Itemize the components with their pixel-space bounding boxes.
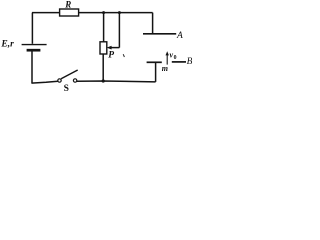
svg-text:B: B bbox=[187, 57, 192, 67]
wire right vertical to plate B bbox=[155, 62, 157, 82]
svg-text:m: m bbox=[162, 64, 168, 73]
junction node at top of slider branch bbox=[118, 11, 121, 14]
wire slider branch vertical bbox=[118, 13, 120, 48]
plate B right segment bbox=[172, 61, 186, 63]
potentiometer P box bbox=[100, 42, 107, 54]
wire potentiometer branch upper bbox=[103, 13, 105, 42]
wire top-right vertical to plate A bbox=[152, 13, 154, 34]
wire slider branch horizontal bbox=[111, 47, 120, 49]
wire bottom-right horizontal bbox=[77, 80, 156, 83]
plate A bbox=[143, 33, 176, 35]
wire left vertical lower bbox=[31, 51, 33, 83]
wire left vertical upper (battery branch) bbox=[31, 13, 33, 44]
stray scan tick near P bbox=[123, 54, 124, 57]
potentiometer slider arrowhead bbox=[107, 46, 112, 50]
svg-text:P: P bbox=[108, 50, 114, 60]
svg-text:S: S bbox=[64, 84, 69, 94]
battery E,r long plate bbox=[22, 44, 47, 46]
svg-text:0: 0 bbox=[174, 55, 177, 61]
svg-text:A: A bbox=[176, 31, 183, 41]
switch S left contact bbox=[58, 79, 61, 82]
junction node at top of P branch bbox=[102, 11, 105, 14]
velocity arrow v0 head bbox=[166, 51, 169, 55]
svg-text:R: R bbox=[64, 0, 71, 9]
plate B left segment bbox=[147, 61, 162, 63]
velocity arrow v0 shaft bbox=[166, 55, 168, 65]
switch S lever bbox=[61, 70, 78, 79]
battery E,r short thick plate bbox=[27, 49, 41, 52]
wire potentiometer branch lower bbox=[102, 54, 104, 81]
wire top-left horizontal bbox=[32, 12, 60, 14]
wire top-right horizontal bbox=[79, 12, 153, 14]
resistor R1 box bbox=[60, 9, 79, 16]
junction node at bottom of P branch bbox=[102, 79, 105, 82]
svg-text:E,r: E,r bbox=[0, 40, 14, 50]
wire bottom-left horizontal bbox=[31, 81, 58, 83]
switch S right contact bbox=[73, 79, 76, 82]
